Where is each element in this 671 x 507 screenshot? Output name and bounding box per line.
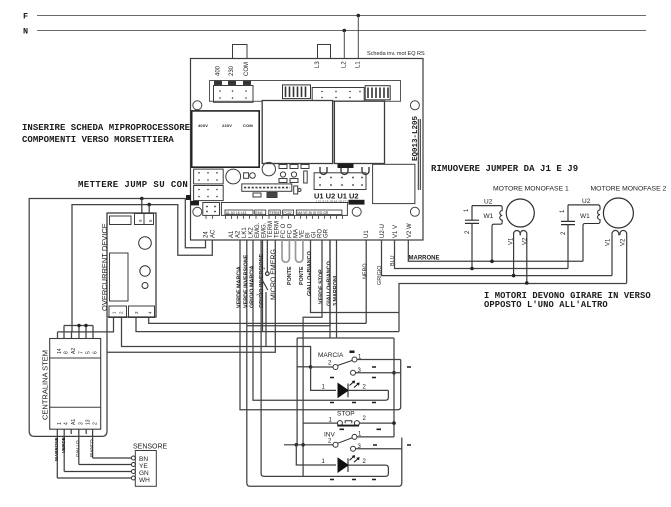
overcurrent device OC1 outline — [107, 213, 156, 317]
svg-text:MARRONE: MARRONE — [409, 256, 440, 262]
svg-text:V1: V1 — [509, 237, 515, 245]
wire M1 V1 hook — [514, 231, 521, 276]
svg-text:2: 2 — [363, 416, 367, 422]
svg-text:W1: W1 — [484, 213, 494, 220]
svg-text:GIALLO: GIALLO — [75, 440, 80, 457]
wire drop to overcurrent terminal 5 — [148, 205, 150, 213]
svg-text:MICRO EMERG: MICRO EMERG — [270, 249, 277, 300]
wire M1 W1 down to bus1 — [491, 226, 493, 261]
wire M2 V2 hook — [620, 230, 627, 283]
connector block E lower-left dotted — [194, 169, 224, 184]
svg-text:WH: WH — [139, 477, 150, 484]
svg-text:24: 24 — [204, 231, 210, 238]
INV contact 3 circle — [351, 446, 356, 451]
svg-text:V1: V1 — [606, 238, 612, 246]
MARCIA switch arm — [338, 361, 353, 366]
junction M1 V2 bus4 — [525, 281, 529, 285]
wire column GIALLO+BIANCO — [311, 240, 400, 313]
INV contact 2 circle — [333, 442, 338, 447]
stem bottom pin labels — [57, 419, 99, 425]
wire rail V394 marcia stop inv — [393, 338, 395, 437]
transformer block T1 — [192, 111, 260, 167]
svg-text:MOTORE MONOFASE 1: MOTORE MONOFASE 1 — [493, 186, 569, 193]
main board outline Scheda EQ013-L205 — [191, 59, 424, 241]
capacitor C-M2 leads — [567, 205, 569, 269]
wire L1 drop from F line into board — [357, 16, 359, 85]
tick marks decor — [330, 367, 411, 480]
board right edge double bar — [418, 119, 420, 190]
sensore terminal circles — [131, 456, 135, 480]
wire column 3 MARRONI — [336, 240, 338, 338]
OC1 bottom terminal box 1 2 — [109, 306, 127, 318]
svg-text:8: 8 — [64, 351, 70, 354]
wire verde stop column to stop feed — [303, 240, 322, 476]
wire net 24 supply: board 24 terminal loop to left rail — [29, 199, 205, 437]
svg-text:2: 2 — [363, 459, 367, 465]
svg-text:2: 2 — [561, 231, 567, 235]
wire column giallo bianco 2 drop — [329, 240, 331, 338]
svg-text:13: 13 — [86, 419, 92, 425]
mounting hole bottom-right — [410, 207, 419, 216]
svg-text:GIALLO+BIANCO: GIALLO+BIANCO — [307, 251, 313, 296]
wire marcia common row left — [297, 366, 311, 368]
wire MARCIA contact1 to right — [357, 359, 401, 361]
svg-text:RIMUOVERE JUMPER DA J1 E J9: RIMUOVERE JUMPER DA J1 E J9 — [431, 164, 578, 174]
wire stop right to vertical — [359, 422, 394, 424]
wire MARCIA contact3 to right — [355, 372, 400, 374]
svg-text:F: F — [23, 12, 28, 22]
jumper J glyphs U U U — [320, 167, 369, 175]
svg-text:V2 W: V2 W — [407, 223, 413, 238]
svg-text:TERM: TERM — [270, 211, 280, 215]
pointer mark near board left edge — [186, 195, 191, 200]
winding M1 W1 — [492, 211, 502, 227]
svg-text:PONTE: PONTE — [287, 266, 293, 285]
svg-text:AC: AC — [211, 229, 217, 238]
svg-text:1: 1 — [322, 385, 326, 391]
motor M2 body circle — [603, 198, 633, 228]
centralina stem box — [50, 339, 101, 430]
svg-text:U1: U1 — [364, 230, 370, 238]
wire column GRIGIO MARCIA — [253, 240, 388, 400]
svg-text:230V: 230V — [222, 123, 232, 128]
svg-text:EMG.: EMG. — [255, 222, 261, 238]
svg-text:MARCIA: MARCIA — [318, 352, 344, 359]
svg-text:2: 2 — [328, 439, 332, 445]
wire OC terminal4 to verde stop column — [149, 318, 367, 324]
svg-text:Scheda inv. mot EQ RS: Scheda inv. mot EQ RS — [367, 51, 425, 57]
wire column VERDE INVERSIONE — [247, 240, 402, 486]
svg-text:EMG.: EMG. — [262, 222, 268, 238]
svg-text:2: 2 — [328, 361, 332, 367]
svg-text:TERM: TERM — [268, 221, 274, 238]
svg-text:LK2: LK2 — [249, 227, 255, 238]
svg-text:400: 400 — [216, 65, 222, 76]
wire INV feed — [284, 444, 333, 446]
svg-text:400V: 400V — [198, 123, 208, 128]
svg-text:GRIGIO MARCIA: GRIGIO MARCIA — [250, 265, 256, 308]
board inner white strip top — [210, 81, 401, 102]
wire stem pin4 to GN — [64, 471, 131, 473]
wire net AC supply: board AC terminal loop — [72, 205, 212, 332]
junction on N line to L2 — [343, 29, 347, 33]
MARCIA switch feed wire — [311, 366, 333, 368]
board top tab 1 — [233, 45, 248, 59]
junction pin7 — [77, 324, 80, 327]
led L1 marcia lamp — [338, 381, 359, 397]
svg-text:EM3: EM3 — [256, 211, 263, 215]
OC1 inner window — [110, 253, 129, 301]
label box PONTI black — [338, 164, 354, 169]
MARCIA switch junction dot — [309, 365, 313, 369]
stem top pin stubs — [58, 326, 94, 339]
MARCIA contact 2 circle — [333, 365, 338, 370]
INV junction dot — [295, 443, 299, 447]
wire M2 V1 hook — [612, 230, 619, 275]
relay K1 center block — [262, 101, 332, 164]
junction on F line to L1 — [357, 14, 361, 18]
wire led L2 right side loop — [261, 240, 388, 476]
svg-text:YE: YE — [139, 463, 148, 470]
svg-text:BN: BN — [139, 456, 148, 463]
connector block F lower-left dotted — [194, 186, 224, 201]
svg-text:L2: L2 — [342, 61, 348, 68]
svg-text:1: 1 — [322, 459, 326, 465]
svg-text:STOP: STOP — [337, 411, 355, 418]
stem top pin labels — [57, 348, 99, 354]
wire N mains line — [37, 30, 646, 32]
wire drop to overcurrent terminal 9 — [141, 199, 143, 214]
terminal strip pin ticks — [206, 215, 343, 219]
OC1 top terminal box 9 5 — [135, 214, 154, 225]
wire INV contact1 up to stop — [357, 436, 394, 438]
winding M2 W1 — [583, 210, 600, 226]
junction M1 V1 bus3 — [512, 274, 516, 278]
OC1 dial big — [139, 237, 152, 250]
capacitor C-M1 plates — [465, 220, 479, 223]
junction M1 W1 bus1 — [490, 260, 494, 264]
svg-text:L1: L1 — [356, 61, 362, 68]
svg-text:FC02: FC02 — [283, 211, 291, 215]
svg-text:GR: GR — [324, 228, 330, 238]
svg-text:CENTRALINA STEM: CENTRALINA STEM — [41, 350, 50, 420]
svg-text:METTERE JUMP SU CON: METTERE JUMP SU CON — [78, 180, 188, 190]
svg-text:V2: V2 — [621, 238, 627, 246]
svg-text:VERDE INVERSIONE: VERDE INVERSIONE — [244, 254, 250, 308]
capacitor C1 round — [226, 169, 241, 184]
svg-text:L3: L3 — [315, 61, 321, 68]
mounting hole bottom-left — [193, 207, 202, 216]
motor M1 body circle — [506, 199, 534, 227]
svg-text:U2: U2 — [484, 199, 493, 206]
mounting hole bottom-middle — [352, 207, 361, 216]
svg-text:BIANCO: BIANCO — [89, 439, 94, 457]
connector block D striped — [365, 86, 390, 100]
jumper PONTE 1 — [282, 240, 289, 262]
wire column GIALLO BIANCO 2 — [247, 240, 330, 326]
wire rail pins 8-7-5-6 — [64, 325, 93, 327]
svg-text:2: 2 — [465, 230, 471, 234]
wire stem pin3 to YE — [79, 464, 132, 466]
micro emerg switch symbol — [261, 240, 269, 347]
jumper PONTE 2 — [296, 240, 303, 262]
wire header rail H338 — [297, 337, 394, 339]
svg-text:FC O: FC O — [281, 223, 287, 238]
svg-text:VERDE MARCIA: VERDE MARCIA — [237, 266, 243, 308]
svg-text:N: N — [23, 27, 28, 37]
wire stop left feed — [303, 422, 337, 424]
wire INV common down to led — [296, 445, 336, 465]
junction MARCIA c3 row — [392, 371, 396, 375]
svg-text:5: 5 — [86, 351, 92, 354]
svg-text:INSERIRE SCHEDA MIPROPROCESSOR: INSERIRE SCHEDA MIPROPROCESSORE — [22, 123, 191, 133]
svg-text:COMPOMENTI VERSO MORSETTIERA: COMPOMENTI VERSO MORSETTIERA — [22, 135, 174, 145]
power module box bottom right of board — [373, 164, 415, 203]
svg-text:U2-U: U2-U — [380, 224, 386, 238]
junction dot wire A to overcurrent — [140, 197, 144, 201]
wire INV contact3 to right — [355, 448, 402, 450]
svg-text:2: 2 — [363, 385, 367, 391]
terminal strip tiny labels — [225, 210, 342, 215]
board top tab 2 — [318, 45, 331, 59]
small parts cluster R C — [279, 165, 309, 184]
MARCIA contact 3 circle — [351, 370, 356, 375]
wire stem pin1 to WH — [57, 477, 131, 479]
junction pin5 — [84, 324, 87, 327]
wire V2W MARRONE to bus1 — [408, 240, 583, 261]
IC U3 dip socket dashed — [242, 184, 292, 191]
label 24VAC black box — [349, 200, 365, 205]
svg-text:MOTORE MONOFASE 2: MOTORE MONOFASE 2 — [591, 186, 667, 193]
svg-text:LK1: LK1 — [242, 227, 248, 238]
wire OC terminal3 to grigio inversione column — [136, 318, 399, 332]
OC1 dial mid — [140, 266, 150, 276]
svg-text:A2: A2 — [236, 230, 242, 238]
OC1 button small — [142, 283, 148, 289]
wire M2 W1 down to bus1 — [582, 226, 584, 262]
svg-text:V1 V: V1 V — [393, 225, 399, 238]
stem divider top — [50, 357, 101, 359]
svg-text:A2: A2 — [71, 348, 77, 354]
svg-text:6: 6 — [93, 351, 99, 354]
svg-text:W1: W1 — [580, 213, 590, 220]
svg-text:1: 1 — [57, 422, 63, 425]
junction dot wire B to overcurrent — [147, 203, 151, 207]
wire OC terminal1 to stem pin14 — [58, 318, 114, 332]
wire M1 V2 hook — [520, 231, 527, 284]
INV contact 1 circle — [352, 434, 357, 439]
capacitor C-M1 leads — [471, 206, 473, 269]
MARCIA contact 1 circle — [352, 357, 357, 362]
mounting hole top-right — [410, 101, 419, 110]
junction stop right — [392, 421, 396, 425]
svg-text:INV: INV — [324, 432, 336, 439]
junction M1 cap bus2 — [470, 267, 474, 271]
svg-text:1: 1 — [560, 209, 566, 213]
svg-text:OVERCURRENT DEVICE: OVERCURRENT DEVICE — [100, 223, 109, 311]
junction INV feed crossing — [301, 443, 305, 447]
wire column VERDE MARCIA — [240, 240, 401, 410]
stem bottom pin stubs — [57, 429, 92, 478]
stop contact circles NC button — [337, 421, 359, 426]
INV switch arm — [338, 438, 353, 443]
svg-text:GRIGIO: GRIGIO — [377, 266, 383, 285]
svg-text:GN: GN — [139, 470, 149, 477]
sensore box — [135, 451, 156, 487]
connector block J1-J9 — [314, 173, 366, 190]
svg-text:A1: A1 — [71, 419, 77, 425]
svg-text:A1: A1 — [229, 230, 235, 238]
mounting hole top-left — [193, 101, 202, 110]
svg-text:AL A2 L6 L43: AL A2 L6 L43 — [226, 211, 246, 215]
wire MARCIA common down to led — [311, 367, 336, 390]
svg-text:SENSORE: SENSORE — [133, 444, 168, 451]
svg-text:3: 3 — [79, 422, 85, 425]
svg-text:VERDE: VERDE — [61, 437, 66, 453]
svg-text:BLU: BLU — [390, 255, 396, 266]
wire U2-U GRIGIO to bus3 — [382, 240, 613, 276]
svg-text:V2: V2 — [523, 237, 529, 245]
led L2 inv lamp — [338, 456, 359, 472]
wire V1V BLU to bus2 — [395, 240, 569, 269]
wire column GRIGIO INVERSIONE — [262, 240, 264, 332]
OC1 top-left window — [110, 216, 132, 225]
svg-text:PONTE: PONTE — [299, 266, 305, 285]
wire column 3 MARRONI to motor bus4 — [399, 284, 627, 332]
component D1 small rect and circle — [244, 173, 249, 179]
OC1 bottom terminal box 3 4 — [129, 306, 155, 318]
svg-text:NERO: NERO — [363, 263, 369, 279]
small parts under socket — [253, 186, 301, 198]
relay K2 right block — [334, 101, 384, 163]
wire U1 NERO column — [365, 240, 367, 323]
capacitor C2 round — [262, 162, 275, 175]
svg-text:7: 7 — [79, 351, 85, 354]
wire OC terminal2 to micro emerg leg — [122, 318, 311, 368]
svg-text:COM: COM — [244, 62, 250, 76]
wire stem pin2 to BN — [93, 457, 132, 459]
wire led L1 right side — [348, 389, 388, 391]
svg-text:MA VE BI GI RO GR: MA VE BI GI RO GR — [297, 211, 329, 215]
svg-text:230: 230 — [229, 65, 235, 76]
svg-text:OPPOSTO L'UNO ALL'ALTRO: OPPOSTO L'UNO ALL'ALTRO — [484, 300, 608, 310]
connector block A 400/230/COM — [214, 81, 254, 102]
svg-text:14: 14 — [57, 348, 63, 354]
svg-text:U2: U2 — [582, 198, 591, 205]
wire M1 U2 top link — [472, 206, 502, 211]
terminal strip X1 — [221, 203, 347, 216]
svg-text:MARRONE: MARRONE — [54, 437, 59, 461]
svg-text:COM: COM — [243, 123, 253, 128]
capacitor C-M2 plates — [561, 221, 575, 224]
label 24V black box — [191, 201, 200, 206]
stem divider bottom — [50, 406, 101, 408]
wire M2 U2 top link — [568, 205, 600, 210]
MARCIA actuator mark — [350, 351, 355, 354]
wire L2 drop from N line into board — [343, 31, 345, 85]
connector block B striped — [283, 85, 311, 99]
wire F mains line — [37, 15, 646, 17]
svg-text:TERM: TERM — [275, 221, 281, 238]
wire rail V297 to inv common — [296, 338, 298, 445]
board terminal labels rotated — [204, 221, 414, 238]
connector block C — [312, 88, 364, 102]
svg-text:2: 2 — [93, 422, 99, 425]
svg-text:4: 4 — [64, 422, 70, 425]
terminal strip left connector — [203, 203, 220, 216]
wire micro emerg leg2 horizontal — [107, 240, 275, 352]
svg-text:1: 1 — [464, 208, 470, 212]
